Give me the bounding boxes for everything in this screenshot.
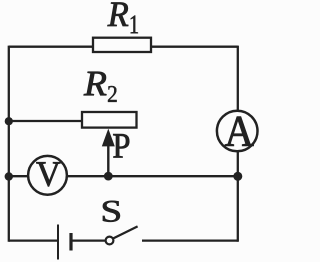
wire middle branch R2 row (left wire to rheostat R2) xyxy=(9,120,82,122)
node junction dot at wiper P on voltmeter row xyxy=(104,172,113,181)
label R2 (italic R) xyxy=(84,72,106,95)
label S (switch) xyxy=(103,201,120,222)
voltmeter V (circle with letter V) xyxy=(28,156,67,195)
node junction dot on left wire at voltmeter row xyxy=(5,172,13,180)
wire right vertical (top-right corner down through ammeter to bottom-right corner) xyxy=(237,46,239,242)
wire bottom middle segment (battery to switch) xyxy=(71,239,106,241)
wire left vertical (top-left corner down to bottom-left corner) xyxy=(8,46,10,242)
label R1 (italic R) xyxy=(108,3,129,26)
wire voltmeter row (left wire to right wire through voltmeter) xyxy=(9,175,238,177)
node junction dot on left wire at R2 row xyxy=(5,117,13,125)
battery cell (long positive plate and short thick negative plate) xyxy=(58,225,71,260)
wire top (from top-left corner to top-right corner) xyxy=(9,46,238,48)
node junction dot on right wire at voltmeter row xyxy=(233,172,242,181)
switch S (pivot circle and open lever arm) xyxy=(106,226,138,244)
wiper arrow P of rheostat R2 (shaft from voltmeter-row node up into box) xyxy=(102,129,115,177)
wire bottom left segment (bottom-left corner to battery) xyxy=(9,239,58,241)
ammeter A (circle with letter A) xyxy=(217,111,258,152)
wire bottom right segment (switch gap to bottom-right corner) xyxy=(142,239,238,241)
label R1 subscript 1 xyxy=(131,16,138,34)
label P (wiper) xyxy=(113,134,129,157)
resistor R1 (rectangle box on top wire) xyxy=(93,38,151,52)
label R2 subscript 2 xyxy=(108,86,117,102)
rheostat R2 (rectangle box, right terminal open) xyxy=(82,112,137,128)
